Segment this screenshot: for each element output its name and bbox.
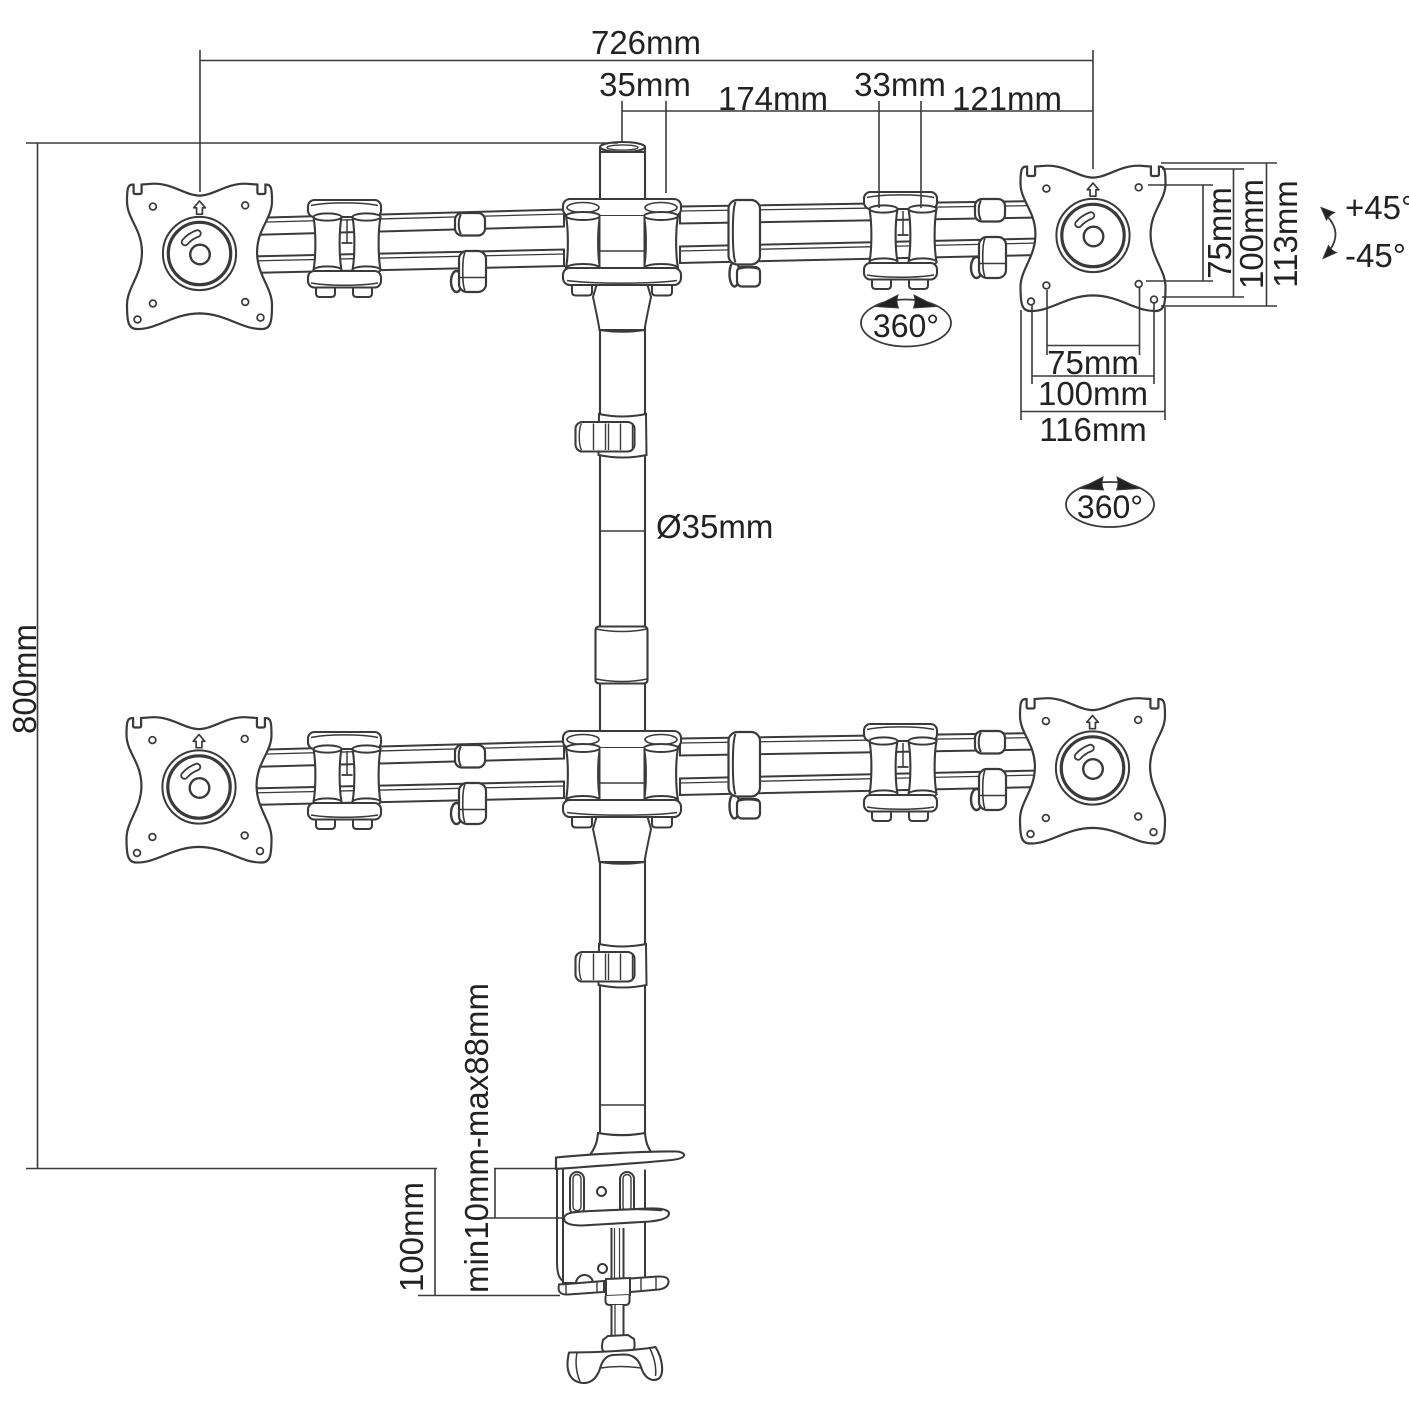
clamp screw rod lower [612,1305,624,1341]
bottom arm lower tube [250,782,564,806]
desk clamp cone collar [590,1133,653,1155]
tilt arrow up [1321,208,1335,221]
clamp pad plate [564,1208,669,1225]
rot arrow right lower [1117,477,1140,490]
dim 75 horiz [1047,345,1140,347]
dim 75 vert [1202,185,1204,281]
rot arrow left upper [876,295,899,308]
slot [570,1172,584,1215]
svg-text:116mm: 116mm [1039,411,1147,448]
ext left 726 [199,50,201,192]
svg-text:726mm: 726mm [591,24,701,61]
dimension row 35/174/33/121 [622,110,1093,112]
dim 113 vert [1266,163,1268,306]
bracket hole upper [597,1187,606,1196]
bottom arm upper tube [250,742,564,768]
top arm bolt clamp left [308,200,381,297]
bottom arm cable clip right pair [971,731,1006,810]
VESA plate bottom-right [1020,698,1165,843]
dim 116 horiz [1021,411,1165,413]
desk clamp C-bracket upper [557,1169,570,1284]
svg-text:100mm: 100mm [1233,179,1270,289]
dim 100 horiz [1032,375,1154,377]
top arm lower tube [250,250,564,274]
svg-text:-45°: -45° [1345,237,1406,274]
svg-text:800mm: 800mm [6,624,43,734]
ext 33 right [920,101,922,208]
pole seam [600,530,645,532]
bottom arm bolt clamp right [864,724,937,821]
ext 35 right [665,101,667,193]
ext 33 left [878,101,880,208]
pole seam lower [600,1104,645,1106]
svg-text:121mm: 121mm [952,80,1062,117]
svg-text:33mm: 33mm [854,66,946,103]
dimension 800mm [37,143,39,1169]
ext bottom 800 [26,1168,437,1170]
dim 100 bottom [434,1169,436,1296]
right plate bottom dims [1046,290,1048,355]
top arm bolt clamp right [864,192,937,289]
svg-text:113mm: 113mm [1267,180,1304,288]
ext right 726/121 [1092,50,1094,169]
top arm cable clip left pair [451,213,486,292]
VESA plate top-right [1021,166,1166,311]
wing handle [568,1347,663,1383]
VESA plate top-left [127,184,272,329]
ext 35 left [621,101,623,143]
360 rotation lower [1066,482,1154,527]
pole right edge [644,150,646,1133]
bottom arm pole cross clamp [563,731,681,864]
svg-text:100mm: 100mm [393,1182,430,1292]
svg-text:360°: 360° [873,308,939,344]
svg-text:35mm: 35mm [599,66,691,103]
top arm cable clip mid (tall) [729,200,761,287]
svg-text:min10mm-max88mm: min10mm-max88mm [458,983,495,1293]
svg-text:174mm: 174mm [718,80,828,117]
bracket hole lower [598,1264,607,1273]
tilt arrow down [1323,246,1337,259]
pole top cap [600,148,645,152]
pole left edge [599,150,601,1133]
adjustment collar upper [576,414,647,458]
bottom arm cable clip left pair [451,745,486,824]
screw nut block [602,1335,635,1352]
adjustment collar lower [576,944,647,988]
svg-text:360°: 360° [1077,489,1143,525]
dimension 726mm [200,60,1093,62]
bracket foot [576,1275,593,1284]
pole sleeve section [596,627,648,684]
VESA plate bottom-left [127,717,272,862]
top arm pole cross clamp [563,199,681,332]
rot arrow right upper [914,295,937,308]
ext top 800 [26,142,618,144]
svg-text:Ø35mm: Ø35mm [656,508,773,545]
svg-text:100mm: 100mm [1038,375,1148,412]
bottom arm bolt clamp left [308,732,381,829]
dim 100 vert [1233,169,1235,297]
clamp screw boss [606,1295,630,1305]
svg-text:+45°: +45° [1345,189,1409,226]
bottom arm cable clip mid (tall) [729,732,761,819]
top arm cable clip right pair [971,199,1006,278]
tilt arc [1327,216,1336,251]
slot [620,1172,634,1215]
desk clamp top plate [556,1151,684,1169]
rot arrow left lower [1081,477,1104,490]
dim min-max vert [494,1169,496,1219]
360 rotation upper [861,300,951,347]
top arm upper tube [250,210,564,236]
clamp screw rod upper [612,1228,624,1295]
